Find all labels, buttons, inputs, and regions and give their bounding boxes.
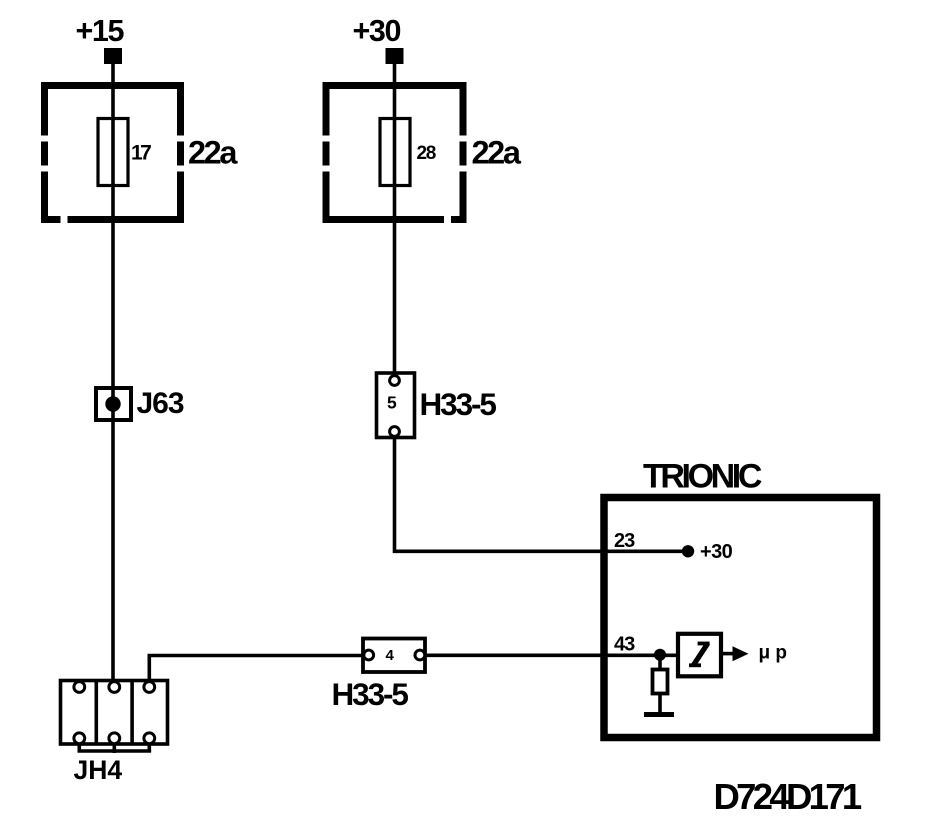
wire junction to resistor [658, 655, 662, 669]
splice J63 dot [105, 396, 120, 411]
svg-text:4: 4 [386, 647, 395, 664]
connector H33-5 pin 5 body [377, 373, 415, 438]
connector H33-5 pin 5 top hole [390, 376, 400, 386]
svg-text:5: 5 [387, 393, 397, 413]
connector H33-5 pin 5 bottom hole [390, 427, 400, 437]
connector JH4 divider left [95, 681, 99, 745]
fuse holder box 22a (left) dashed border [45, 86, 181, 220]
wire JH4 up and right to H33-5 (4) [149, 656, 363, 683]
driver stage symbol top bar [698, 642, 710, 646]
ECU box TRIONIC [604, 498, 877, 738]
svg-text:JH4: JH4 [74, 755, 123, 785]
svg-text:μ p: μ p [759, 643, 788, 664]
splice J63 box [96, 388, 131, 420]
node dot +30 internal [682, 545, 694, 557]
svg-text:28: 28 [417, 143, 436, 164]
JH4 bottom link bar [78, 749, 152, 753]
wire H33-5 (4) right to pin 43 junction [424, 653, 678, 657]
svg-text:H33-5: H33-5 [420, 386, 497, 422]
svg-text:+30: +30 [700, 541, 733, 563]
svg-text:17: 17 [131, 142, 151, 165]
JH4 hole top 2 [109, 682, 120, 693]
JH4 hole bottom 3 [144, 733, 155, 744]
terminal square +30 [386, 48, 404, 64]
svg-text:23: 23 [614, 530, 635, 552]
driver stage symbol bottom bar [689, 663, 701, 667]
JH4 bottom link stub 2 [113, 744, 117, 753]
JH4 hole top 1 [74, 682, 85, 693]
JH4 bottom link stub 3 [148, 744, 152, 752]
svg-text:TRIONIC: TRIONIC [643, 458, 762, 496]
fuse 28 body [380, 119, 410, 186]
connector H33-5 pin 4 right hole [415, 650, 425, 660]
driver stage box [678, 634, 721, 677]
svg-text:+30: +30 [353, 14, 401, 48]
connector H33-5 pin 4 body [363, 639, 425, 673]
terminal square +15 [104, 48, 122, 64]
svg-text:D724D171: D724D171 [714, 776, 862, 817]
driver stage symbol diagonal [693, 643, 708, 665]
wire +30 down to H33-5 [393, 62, 397, 375]
wire resistor to ground [658, 695, 662, 713]
JH4 hole bottom 1 [74, 733, 85, 744]
fuse 17 body [98, 119, 128, 186]
arrow head to microprocessor [733, 646, 749, 661]
connector H33-5 pin 4 left hole [364, 650, 374, 660]
wire driver stage to arrow [721, 652, 734, 656]
svg-text:+15: +15 [76, 14, 125, 48]
svg-text:22a: 22a [188, 135, 238, 171]
svg-text:43: 43 [614, 634, 635, 656]
fuse holder box 22a (right) dashed border [326, 86, 463, 220]
connector JH4 divider right [130, 681, 134, 745]
wire H33-5 down and right to pin 23 [395, 435, 689, 551]
JH4 hole top 3 [144, 682, 155, 693]
JH4 bottom link stub 1 [78, 744, 82, 752]
ground bar [644, 712, 674, 717]
svg-text:H33-5: H33-5 [332, 676, 409, 712]
svg-text:J63: J63 [137, 387, 184, 420]
resistor body [653, 670, 668, 694]
connector JH4 body [61, 681, 168, 745]
JH4 hole bottom 2 [109, 733, 120, 744]
junction dot pin 43 [654, 649, 666, 661]
svg-text:22a: 22a [472, 135, 522, 171]
wire +15 down to JH4 [111, 62, 115, 682]
